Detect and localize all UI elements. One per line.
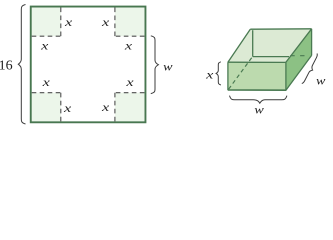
- box interior (top opening) fill: [228, 29, 312, 63]
- front top edge A-B: [228, 61, 286, 63]
- solid box edges: [228, 29, 312, 90]
- svg-text:x: x: [101, 15, 111, 29]
- svg-text:w: w: [163, 59, 173, 73]
- TL vertical dashed: [60, 8, 62, 37]
- svg-text:x: x: [64, 15, 74, 29]
- brace w right: [151, 36, 159, 94]
- back right edge C-G: [311, 29, 313, 56]
- brace 16 left: [18, 5, 25, 125]
- corner square BR fill: [115, 93, 144, 122]
- svg-text:16: 16: [0, 59, 13, 74]
- inner bottom back edge: [253, 56, 289, 58]
- svg-text:x: x: [205, 68, 215, 82]
- top back edge D-C: [250, 28, 311, 30]
- brace w bottom: [230, 96, 287, 104]
- svg-text:w: w: [254, 102, 264, 116]
- TR horizontal dashed: [115, 35, 144, 37]
- corner square TR fill: [115, 8, 144, 37]
- BL vertical dashed: [60, 93, 62, 122]
- TR vertical dashed: [114, 8, 116, 37]
- front bottom edge E-F: [228, 89, 287, 91]
- BL horizontal dashed: [32, 92, 61, 94]
- svg-text:x: x: [41, 75, 51, 89]
- rim right edge B-C: [286, 29, 312, 63]
- box front face fill: [228, 62, 286, 90]
- front right edge B-F: [285, 62, 287, 90]
- svg-text:x: x: [124, 38, 134, 52]
- corner square TL fill: [32, 8, 145, 122]
- svg-text:x: x: [40, 38, 50, 52]
- brace x box: [216, 62, 221, 85]
- TL horizontal dashed: [32, 35, 61, 37]
- corner square BL fill: [32, 93, 61, 122]
- svg-text:w: w: [316, 73, 326, 87]
- svg-text:x: x: [101, 100, 111, 114]
- hidden bottom-back edge H-G: [290, 55, 306, 57]
- dashed cut lines: [32, 8, 145, 122]
- sheet outline: [31, 7, 146, 123]
- brace w rightdiag: [302, 54, 318, 84]
- inner corner vertical D-H: [252, 30, 254, 56]
- x labels on sheet: [40, 15, 135, 115]
- hidden bottom-left edge E-H: [229, 57, 253, 89]
- box right face fill: [286, 29, 312, 90]
- front left edge A-E: [227, 62, 229, 90]
- BR vertical dashed: [114, 93, 116, 122]
- svg-text:x: x: [125, 75, 135, 89]
- svg-text:x: x: [63, 101, 73, 115]
- BR horizontal dashed: [115, 92, 144, 94]
- hidden edges dashed: [229, 56, 307, 89]
- right bottom edge G-F: [286, 55, 312, 90]
- rim left edge A-D: [228, 29, 250, 62]
